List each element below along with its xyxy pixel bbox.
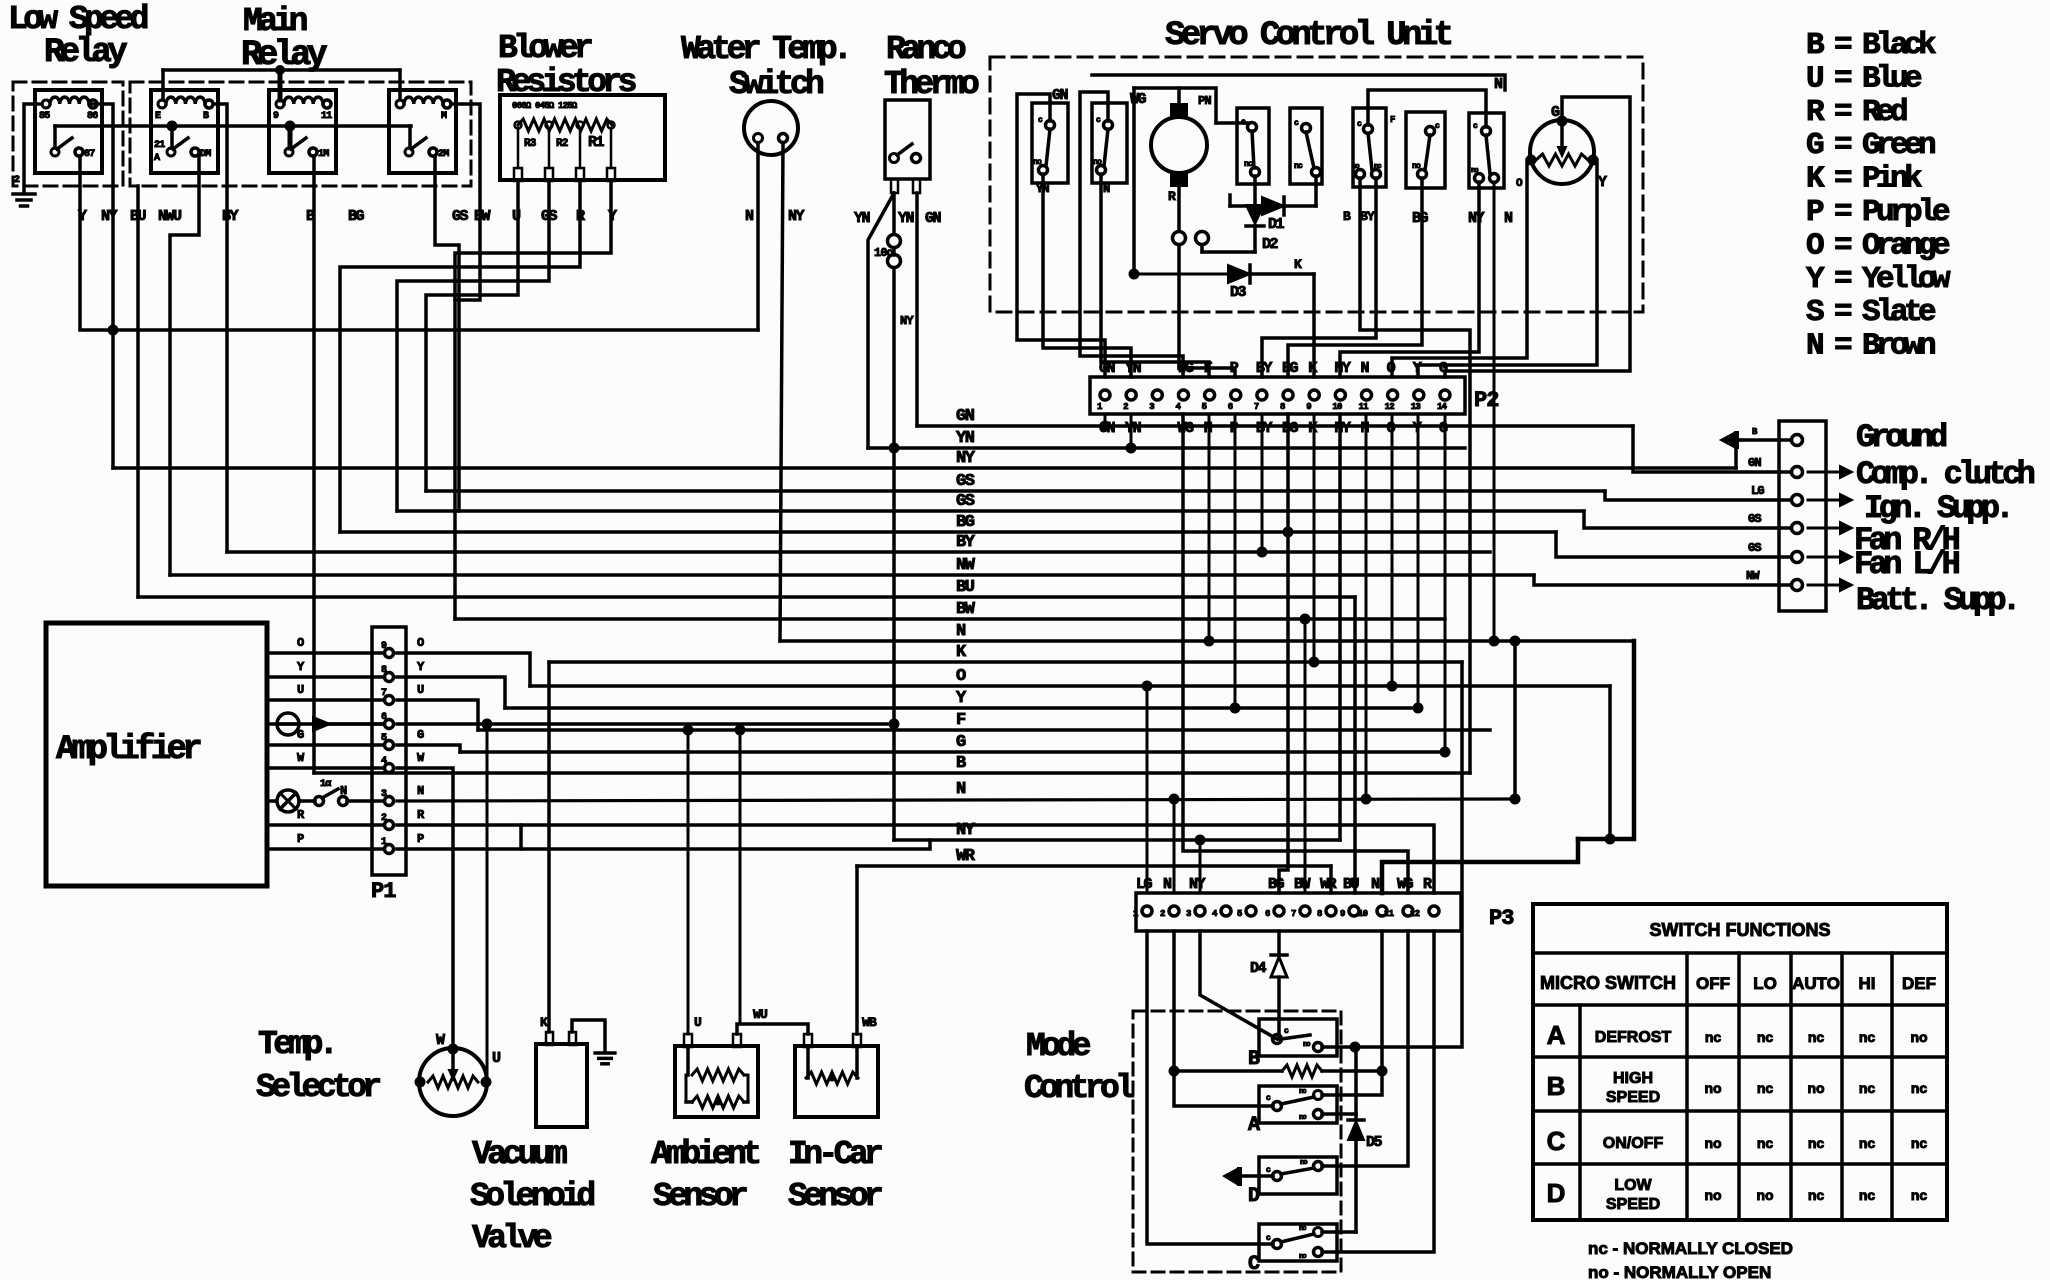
svg-text:WR: WR: [956, 847, 976, 866]
svg-text:85: 85: [39, 111, 50, 122]
svg-text:B: B: [203, 111, 209, 122]
wire N servo sw2 to P2 pin5: [1101, 174, 1209, 377]
wire bus GS y=491: [426, 489, 1605, 493]
wire amplifier to P1 pin W: [267, 766, 384, 770]
wire diag P3 pin3 to switch B: [1200, 931, 1277, 1039]
svg-text:C: C: [1248, 1253, 1260, 1276]
wire GS from blower: [397, 181, 549, 511]
wire P1 W to temp selector: [397, 768, 453, 1049]
wire NY from water temp switch: [780, 143, 783, 641]
svg-text:F: F: [1390, 115, 1395, 125]
diode D5: [1354, 1047, 1358, 1114]
svg-text:GS: GS: [956, 492, 975, 511]
svg-text:GS: GS: [452, 208, 469, 225]
svg-text:K: K: [1294, 257, 1302, 272]
svg-text:no - NORMALLY OPEN: no - NORMALLY OPEN: [1588, 1263, 1771, 1280]
wire NY from K1 86: [92, 104, 113, 330]
svg-text:GN: GN: [1052, 87, 1069, 104]
svg-text:nc: nc: [1374, 163, 1381, 171]
svg-text:12: 12: [1385, 402, 1395, 412]
svg-text:Blower: Blower: [498, 30, 592, 67]
svg-text:P = Purple: P = Purple: [1806, 195, 1950, 230]
svg-text:O: O: [297, 636, 304, 650]
svg-text:O: O: [417, 636, 424, 650]
wire B from servo sw5 to bus: [1360, 178, 1470, 773]
connector P3: [1136, 893, 1461, 931]
svg-text:no: no: [1303, 1041, 1310, 1049]
wire amplifier to P1 pin P: [267, 847, 384, 851]
wire P1 N to bus: [397, 799, 1515, 801]
switch functions table: [1533, 904, 1947, 1220]
svg-text:Selector: Selector: [256, 1069, 380, 1106]
svg-text:B: B: [1343, 209, 1351, 224]
svg-text:nc: nc: [1299, 1225, 1306, 1233]
svg-text:R: R: [1168, 189, 1176, 204]
wire LG to ign supp: [1605, 491, 1791, 500]
svg-text:11: 11: [1384, 909, 1395, 919]
svg-text:NY: NY: [101, 208, 118, 225]
wire P1 symbol row: [397, 722, 894, 726]
ambient sensor: [675, 1046, 758, 1117]
svg-text:86: 86: [87, 111, 98, 122]
wire BU to P3 pin9: [1353, 597, 1357, 893]
svg-text:WG: WG: [1177, 360, 1194, 377]
svg-text:13: 13: [1411, 402, 1421, 412]
svg-text:GN: GN: [1099, 360, 1116, 377]
svg-text:LOW: LOW: [1614, 1177, 1652, 1194]
svg-text:no: no: [1352, 163, 1359, 171]
svg-text:nc: nc: [1859, 1080, 1876, 1096]
svg-text:N: N: [956, 622, 966, 641]
svg-text:Fan L/H: Fan L/H: [1854, 546, 1960, 583]
wire GS to fan LH: [1556, 532, 1791, 557]
svg-text:12: 12: [1410, 909, 1420, 919]
svg-text:GS: GS: [1748, 512, 1761, 526]
microswitch A defrost: [1259, 1086, 1337, 1123]
connector P1: [372, 627, 406, 875]
wire bus NY y=468: [113, 466, 1736, 470]
wire GS from K4 contact: [435, 156, 459, 511]
dashed enclosure servo control unit: [990, 57, 1643, 312]
svg-text:no: no: [1299, 1114, 1306, 1122]
svg-text:10α: 10α: [874, 246, 895, 260]
wire bus Y y=708: [505, 706, 1418, 710]
wire bus K y=662: [549, 660, 1462, 664]
svg-text:nc: nc: [1859, 1187, 1876, 1203]
wire NY bus up to ground pin: [1736, 440, 1741, 468]
svg-text:NY: NY: [1468, 210, 1485, 227]
microswitch servo sw4: [1290, 108, 1322, 184]
blower resistor pack R1 R2 R3: [500, 95, 665, 180]
svg-text:G = Green: G = Green: [1806, 128, 1935, 163]
svg-text:SPEED: SPEED: [1606, 1089, 1660, 1106]
svg-text:nc: nc: [1808, 1029, 1825, 1045]
svg-text:D: D: [1248, 1185, 1260, 1208]
junction YN diag joins bus: [889, 443, 900, 454]
svg-text:Control: Control: [1024, 1070, 1134, 1107]
svg-text:nc: nc: [1294, 162, 1303, 171]
svg-text:DEF: DEF: [1902, 974, 1936, 993]
svg-text:Servo Control Unit: Servo Control Unit: [1165, 17, 1452, 55]
svg-text:NY: NY: [900, 314, 914, 328]
svg-text:Ambient: Ambient: [651, 1136, 759, 1173]
svg-text:NY: NY: [956, 449, 976, 468]
svg-text:NY: NY: [1189, 876, 1206, 893]
mode resistor: [1174, 1069, 1282, 1073]
microswitch servo sw1 GN: [1032, 103, 1068, 183]
wire P2 pin7 BY: [1261, 414, 1264, 552]
wire P2 pin12 O: [1391, 414, 1394, 686]
svg-text:BW: BW: [1294, 876, 1311, 893]
svg-text:N: N: [1103, 182, 1110, 196]
svg-text:U: U: [694, 1015, 701, 1030]
svg-text:R = Red: R = Red: [1806, 95, 1907, 130]
diode D2: [1253, 176, 1257, 205]
wire P2 pin13 Y: [1417, 414, 1420, 708]
servo motor: [1151, 117, 1207, 173]
svg-text:ON/OFF: ON/OFF: [1603, 1135, 1664, 1152]
svg-text:BU: BU: [1343, 876, 1360, 893]
wire BG servo sw6 to P2 pin8: [1288, 178, 1422, 377]
wire P3 pin1 to switch C: [1147, 931, 1273, 1244]
svg-text:5: 5: [1202, 402, 1207, 412]
wire NWU from K2 contact: [170, 156, 199, 575]
svg-text:YN: YN: [1125, 360, 1142, 377]
svg-text:nc: nc: [1244, 160, 1253, 169]
wire amplifier to P1 pin U: [267, 698, 384, 702]
wire BY servo sw5 to P2 pin7: [1262, 178, 1376, 377]
svg-text:6: 6: [1228, 402, 1233, 412]
svg-text:P: P: [297, 832, 304, 846]
wire P3 pin2 to switch A: [1174, 931, 1273, 1106]
svg-text:Thermo: Thermo: [884, 66, 979, 103]
svg-text:Switch: Switch: [729, 66, 823, 103]
svg-text:G: G: [956, 733, 966, 752]
svg-text:BY: BY: [222, 208, 239, 225]
svg-text:nc: nc: [1757, 1029, 1774, 1045]
wire bus BW y=619: [455, 617, 1445, 621]
svg-text:WR: WR: [1320, 876, 1337, 893]
svg-text:PN: PN: [1198, 94, 1211, 108]
wire NY servo sw7 to P2 pin10: [1340, 182, 1479, 377]
wire O bus drop to elbow: [1608, 686, 1612, 839]
svg-text:AUTO: AUTO: [1792, 974, 1840, 993]
wire NY bus to P3 pin3: [1199, 840, 1202, 893]
svg-text:Solenoid: Solenoid: [470, 1178, 594, 1215]
ranco thermostat: [885, 100, 930, 179]
svg-text:7: 7: [381, 688, 387, 699]
dashed enclosure low speed relay: [13, 82, 123, 186]
svg-text:MICRO SWITCH: MICRO SWITCH: [1540, 973, 1676, 993]
relay K3: [269, 90, 336, 173]
wire P2 pin2 to YN bus: [1130, 414, 1133, 448]
wire P1 Y to bus: [397, 677, 505, 708]
svg-text:U: U: [297, 683, 304, 697]
svg-text:no: no: [1299, 1253, 1306, 1261]
svg-text:GS: GS: [956, 472, 975, 491]
wire U drop to temp selector: [486, 724, 489, 1082]
wire K to vacuum solenoid: [547, 662, 551, 1032]
svg-text:R2: R2: [556, 138, 568, 150]
svg-text:7: 7: [1254, 402, 1259, 412]
svg-text:YN: YN: [956, 429, 975, 448]
microswitch servo sw2 WG: [1092, 103, 1127, 183]
svg-text:N: N: [417, 784, 424, 798]
wire NY horizontal link: [113, 328, 758, 332]
svg-text:D: D: [1547, 1178, 1566, 1208]
inline connector below motor: [1173, 232, 1186, 245]
svg-text:K = Pink: K = Pink: [1806, 162, 1922, 197]
svg-text:no: no: [1471, 167, 1478, 175]
relay K2 main: [151, 90, 218, 173]
svg-text:BY: BY: [1256, 360, 1273, 377]
svg-text:no: no: [1756, 1187, 1773, 1203]
svg-text:9: 9: [273, 111, 279, 122]
wire P2 pin6 P: [1234, 414, 1237, 708]
svg-text:P1: P1: [371, 879, 396, 904]
wire P2 pin1 to GN bus: [1104, 414, 1107, 426]
svg-text:nc: nc: [1757, 1080, 1774, 1096]
svg-text:Low Speed: Low Speed: [8, 1, 148, 38]
svg-text:nc: nc: [1911, 1080, 1928, 1096]
svg-text:WB: WB: [862, 1015, 877, 1030]
svg-text:GN: GN: [956, 407, 975, 426]
svg-text:nc: nc: [1911, 1135, 1928, 1151]
svg-text:R3: R3: [524, 138, 537, 150]
svg-text:2: 2: [14, 175, 20, 186]
svg-text:D2: D2: [1262, 236, 1279, 253]
amplifier: [46, 623, 267, 886]
svg-text:nc: nc: [1757, 1135, 1774, 1151]
svg-text:LG: LG: [1751, 484, 1764, 498]
svg-text:3: 3: [381, 789, 387, 800]
wire N link vertical: [1513, 641, 1517, 799]
svg-text:NY: NY: [788, 208, 805, 225]
wire GN from ranco: [915, 193, 919, 426]
wire P1 G to bus: [397, 745, 460, 752]
wire Y from K1 87: [80, 156, 113, 330]
svg-text:G: G: [417, 728, 424, 742]
wire N servo sw7 down to bus N: [1493, 182, 1496, 641]
svg-text:Sensor: Sensor: [788, 1178, 882, 1215]
svg-text:5: 5: [1237, 909, 1242, 919]
relay K1 low speed: [35, 90, 102, 173]
wire K3 pivot stub: [288, 126, 293, 148]
svg-text:U = Blue: U = Blue: [1806, 61, 1922, 96]
svg-text:2: 2: [1123, 402, 1128, 412]
wire P1 P to NY bus: [397, 840, 930, 849]
svg-text:5: 5: [381, 733, 387, 744]
wire WG loop servo sw2 to P2 pin4: [1080, 92, 1183, 377]
wire LG to P3 pin1: [1146, 686, 1149, 893]
connector P2: [1090, 377, 1465, 414]
svg-text:YN: YN: [854, 210, 871, 227]
svg-text:9: 9: [381, 641, 387, 652]
svg-text:8: 8: [1317, 909, 1322, 919]
wire BU: [136, 186, 140, 597]
water temperature switch: [744, 101, 798, 155]
svg-text:D3: D3: [1230, 284, 1247, 301]
wire servo sw3 top: [1245, 121, 1248, 125]
wire P3 pin10 to resistor: [1380, 931, 1384, 1071]
svg-text:no: no: [1704, 1080, 1721, 1096]
wire R from blower: [340, 181, 580, 532]
svg-text:GS: GS: [1748, 541, 1761, 555]
wire Y from blower: [455, 181, 611, 300]
temperature selector: [419, 1048, 487, 1116]
svg-text:SWITCH FUNCTIONS: SWITCH FUNCTIONS: [1650, 920, 1831, 940]
svg-text:SPEED: SPEED: [1606, 1196, 1660, 1213]
microswitch B high speed: [1259, 1019, 1337, 1056]
svg-text:nc - NORMALLY CLOSED: nc - NORMALLY CLOSED: [1588, 1239, 1793, 1258]
svg-text:3: 3: [1149, 402, 1154, 412]
wire N bus to mode control thick: [1578, 641, 1634, 839]
wire P2 pin5 to N bus: [1208, 414, 1211, 641]
svg-text:nc: nc: [1911, 1187, 1928, 1203]
svg-text:U: U: [417, 683, 424, 697]
wire YN from ranco via connector: [892, 193, 896, 234]
amplifier feedback symbol with switch 1a: [277, 790, 299, 812]
svg-text:Comp. clutch: Comp. clutch: [1856, 456, 2035, 493]
svg-text:A: A: [1547, 1020, 1566, 1050]
wire NW to batt supp: [1534, 575, 1791, 585]
wire bus GN y=426: [917, 424, 1633, 428]
svg-text:nc: nc: [1705, 1029, 1722, 1045]
wire bus B y=773: [314, 771, 1470, 775]
svg-text:WU: WU: [753, 1007, 767, 1022]
svg-text:B: B: [1248, 1048, 1260, 1071]
wire bus GS y=511: [397, 509, 1584, 513]
relay K4: [389, 90, 456, 173]
wire switch A no to D5: [1322, 1112, 1356, 1116]
wire O pot to P2 pin12: [1392, 160, 1531, 377]
wire N from water temp switch: [756, 143, 760, 330]
microswitch servo sw6: [1406, 112, 1445, 188]
svg-text:NY: NY: [1334, 360, 1351, 377]
svg-text:BY: BY: [1360, 209, 1375, 224]
svg-text:8: 8: [1280, 402, 1285, 412]
svg-text:BW: BW: [956, 600, 976, 619]
wire N servo sw5 to sw7: [1368, 90, 1486, 127]
svg-text:HIGH: HIGH: [1613, 1070, 1653, 1087]
wire K2 pivot stub: [170, 126, 174, 148]
svg-text:Water Temp.: Water Temp.: [681, 31, 848, 68]
wire amplifier to P1 pin N: [267, 799, 276, 803]
svg-text:9: 9: [1340, 909, 1345, 919]
svg-text:P: P: [417, 832, 424, 846]
wire switch C no to P3 pin12: [1322, 931, 1434, 1252]
wire WR to P3 pin8: [1329, 866, 1333, 893]
wire B from K3 contact: [312, 156, 316, 773]
wire U from blower: [426, 181, 518, 491]
svg-text:nc: nc: [1859, 1135, 1876, 1151]
svg-text:NW: NW: [956, 556, 976, 575]
svg-text:Batt. Supp.: Batt. Supp.: [1856, 582, 2017, 619]
wire P1 R: [397, 825, 521, 849]
svg-text:BG: BG: [1282, 420, 1299, 437]
svg-text:1M: 1M: [318, 149, 329, 160]
svg-text:3: 3: [1186, 909, 1191, 919]
svg-text:E: E: [155, 111, 161, 122]
svg-text:HI: HI: [1859, 974, 1876, 993]
svg-text:NY: NY: [1334, 420, 1351, 437]
wire bus NW y=575: [170, 573, 1534, 577]
wire BY from K2 coil: [214, 104, 227, 552]
svg-text:OFF: OFF: [1696, 974, 1730, 993]
vacuum solenoid valve: [536, 1044, 587, 1127]
svg-text:R1: R1: [588, 134, 605, 151]
svg-text:BY: BY: [956, 533, 976, 552]
svg-text:11: 11: [1359, 402, 1370, 412]
svg-text:no: no: [1910, 1029, 1927, 1045]
svg-text:DEFROST: DEFROST: [1595, 1029, 1672, 1046]
svg-text:Relay: Relay: [44, 34, 127, 72]
svg-text:Mode: Mode: [1026, 1028, 1091, 1065]
svg-text:10: 10: [1358, 909, 1368, 919]
wire K to switch B no: [1322, 662, 1462, 1047]
svg-text:Y = Yellow: Y = Yellow: [1806, 262, 1951, 297]
wire switch A nc to resistor: [1322, 1071, 1382, 1095]
svg-text:no: no: [1807, 1080, 1824, 1096]
svg-text:Vacuum: Vacuum: [472, 1136, 567, 1173]
in-car sensor: [795, 1046, 878, 1117]
svg-text:no: no: [1704, 1135, 1721, 1151]
wire amplifier to P1 pin G: [267, 743, 384, 747]
microswitch servo sw7: [1469, 113, 1504, 188]
svg-text:8: 8: [381, 665, 387, 676]
svg-text:14: 14: [1437, 402, 1448, 412]
svg-text:Temp.: Temp.: [258, 1026, 334, 1063]
microswitch D low speed: [1259, 1157, 1337, 1194]
wire vacuum solenoid to ground: [572, 1020, 605, 1051]
svg-text:Ground: Ground: [1856, 419, 1947, 456]
svg-text:NW: NW: [1746, 569, 1760, 583]
svg-text:WG: WG: [1177, 420, 1194, 437]
svg-text:BU: BU: [130, 208, 147, 225]
wire bus F y=730: [478, 728, 1490, 732]
svg-text:Sensor: Sensor: [653, 1178, 747, 1215]
svg-text:GN: GN: [925, 210, 942, 227]
wire P2 pin11 N: [1365, 414, 1368, 799]
svg-text:O: O: [956, 667, 966, 686]
dashed enclosure mode control: [1133, 1011, 1341, 1272]
wire switch D no to P3 pin11: [1322, 931, 1408, 1166]
svg-text:no: no: [1093, 158, 1102, 167]
wire bus BY y=552: [227, 550, 1490, 554]
wire bus WR y=866: [857, 864, 1331, 868]
svg-text:Amplifier: Amplifier: [56, 731, 200, 769]
svg-text:YN: YN: [1036, 182, 1049, 196]
wire bus YN y=448: [868, 446, 1465, 450]
svg-text:P2: P2: [1474, 388, 1498, 413]
wire amplifier to P1 pin sym: [267, 722, 384, 726]
svg-text:no: no: [1300, 1159, 1307, 1167]
wire K4 pivot stub: [408, 126, 412, 148]
svg-text:11: 11: [321, 111, 332, 122]
wire P2 pin4 to P3 pin11 WG: [1183, 414, 1408, 893]
svg-text:GN: GN: [1748, 456, 1761, 470]
svg-text:NWU: NWU: [158, 208, 182, 225]
ground arrow at supply connector: [1741, 438, 1791, 442]
svg-text:nc: nc: [1299, 1088, 1306, 1096]
svg-text:nc: nc: [1808, 1135, 1825, 1151]
svg-text:BG: BG: [956, 513, 975, 532]
wire bus BU y=597: [138, 595, 1355, 599]
wire servo top link: [1092, 75, 1505, 90]
wire R from P1 to P3 pin12: [521, 825, 1434, 893]
wire YN servo sw1 to P2 pin2: [1043, 174, 1131, 377]
wire bus G y=752: [460, 750, 1445, 754]
